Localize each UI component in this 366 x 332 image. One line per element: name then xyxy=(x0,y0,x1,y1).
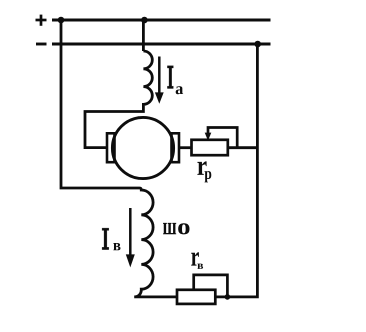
label Ia capital I xyxy=(167,66,173,89)
label sho sh xyxy=(163,223,176,234)
motor armature circle xyxy=(112,117,173,178)
node junction rv output xyxy=(225,294,231,300)
current arrow Iv xyxy=(126,208,135,267)
label sho o xyxy=(178,223,189,234)
label rp subscript p xyxy=(205,171,212,182)
wire rv bypass loop xyxy=(194,275,228,297)
wire armature branch down from + rail xyxy=(142,20,145,51)
rheostat tap arrowhead xyxy=(205,133,212,141)
label Iv capital I xyxy=(102,228,109,250)
wire negative supply rail xyxy=(52,43,271,46)
current arrow Ia xyxy=(155,57,164,104)
resistor rv body xyxy=(177,290,215,304)
label rv r xyxy=(191,252,199,265)
node junction on - rail return xyxy=(254,41,261,48)
label rp r xyxy=(197,161,206,175)
resistor rp body xyxy=(192,140,228,155)
wire positive supply rail xyxy=(52,19,271,22)
label rv subscript v xyxy=(197,264,203,269)
brush left xyxy=(107,133,115,162)
wire right return rail down to rv xyxy=(215,44,257,297)
wire rp to right rail xyxy=(228,146,258,149)
inductor field winding sho (4 loops) xyxy=(134,188,178,297)
inductor armature coil (3 loops) xyxy=(85,51,152,148)
wire right brush to rheostat rp xyxy=(179,146,192,149)
rheostat tap wire over rp xyxy=(208,128,237,148)
node junction on + rail field branch xyxy=(58,17,65,24)
brush right xyxy=(172,133,180,162)
label Iv subscript v xyxy=(113,243,120,250)
plus terminal label xyxy=(36,15,47,26)
node junction on + rail armature branch xyxy=(141,17,148,24)
label Ia subscript a xyxy=(176,86,183,94)
wire left field branch from + rail down and right xyxy=(61,20,134,188)
minus terminal label xyxy=(36,43,47,46)
